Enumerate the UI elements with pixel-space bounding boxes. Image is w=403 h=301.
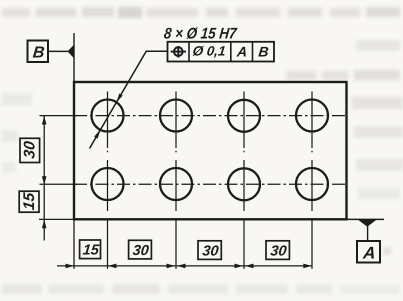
svg-text:30: 30 (270, 244, 288, 260)
svg-text:8 × Ø 15 H7: 8 × Ø 15 H7 (163, 25, 238, 42)
datum B triangle (68, 45, 75, 59)
datum B extension line (left edge extended up) (73, 33, 75, 82)
datum B leader (48, 50, 68, 52)
hole row1 col4 (296, 100, 328, 132)
left dim arrow up at row1 (42, 116, 47, 125)
leader arrowhead upper (points down-left at hole) (117, 94, 123, 103)
svg-text:15: 15 (21, 192, 38, 211)
hole row2 col3 (228, 168, 260, 200)
extension line below plate left edge (73, 219, 75, 268)
datum A leader (367, 226, 369, 241)
svg-text:A: A (361, 243, 376, 262)
hole row1 col1 (92, 100, 124, 132)
left 30 box (20, 138, 40, 162)
svg-text:30: 30 (22, 140, 39, 159)
bottom 30 box 3 (266, 241, 289, 260)
svg-text:A: A (235, 43, 248, 59)
bottom 30 box 1 (129, 240, 152, 259)
position symbol (174, 47, 183, 56)
row 1 centerline (40, 115, 78, 117)
column 1 centerline (107, 92, 109, 269)
leader line to feature control frame (90, 51, 168, 148)
bottom edge extension right (datum A surface) (347, 218, 385, 220)
bottom dim arrow left at col1 (108, 264, 117, 269)
left 15 box (19, 191, 39, 212)
bottom dim arrows at col2 (167, 264, 176, 269)
left dim arrow down at row2 (42, 176, 47, 185)
hole row1 col3 (228, 100, 260, 132)
left dim arrow up at bottom edge (42, 220, 47, 229)
hole row1 col2 (160, 100, 192, 132)
column 4 centerline (311, 92, 313, 269)
svg-text:B: B (32, 44, 45, 62)
column 3 centerline (243, 92, 245, 269)
svg-text:B: B (258, 43, 270, 59)
hole row2 col1 (92, 168, 124, 200)
left dimension line (43, 116, 45, 241)
hole row2 col2 (160, 168, 192, 200)
column 2 centerline (175, 92, 177, 269)
bottom dim arrows at col3 (235, 264, 244, 269)
bottom dim arrow right at left edge (66, 264, 75, 269)
datum A box (357, 241, 380, 263)
feature control frame box (168, 42, 275, 62)
row 2 centerline (40, 183, 78, 185)
hole row2 col4 (296, 168, 328, 200)
bottom edge extension left (39, 218, 74, 220)
bottom dimension line (57, 265, 312, 267)
leader arrowhead lower (points up-right at hole) (94, 130, 100, 139)
bottom dim arrow right at col4 (303, 264, 312, 269)
bottom 15 box (80, 240, 101, 259)
svg-text:Ø 0,1: Ø 0,1 (192, 43, 227, 58)
svg-text:15: 15 (82, 243, 101, 259)
svg-text:30: 30 (202, 244, 220, 260)
bottom 30 box 2 (198, 241, 221, 260)
plate outline (74, 82, 347, 219)
svg-text:30: 30 (132, 243, 150, 259)
datum A triangle (358, 220, 377, 227)
datum B box (28, 41, 49, 63)
